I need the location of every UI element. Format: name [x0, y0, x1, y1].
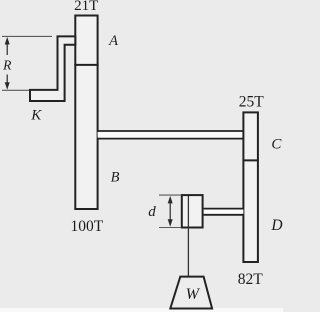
d dimension extension line bottom: [159, 227, 181, 229]
shaft from gear B to gear C: [98, 132, 244, 138]
gear C / gear D column (shaft 2): [243, 112, 258, 262]
rope: [187, 196, 189, 277]
crank K outline: [30, 36, 75, 101]
svg-text:C: C: [271, 137, 282, 153]
d dimension extension line top: [159, 194, 181, 196]
divider between gear A and gear B: [74, 64, 98, 66]
svg-text:100T: 100T: [70, 218, 103, 235]
shaft from gear D to drum: [204, 210, 244, 214]
R dimension extension line top: [2, 35, 52, 37]
svg-text:K: K: [30, 108, 42, 124]
svg-text:W: W: [186, 286, 201, 303]
svg-text:21T: 21T: [74, 0, 98, 14]
svg-text:82T: 82T: [238, 271, 264, 288]
svg-text:R: R: [2, 57, 12, 72]
svg-text:25T: 25T: [239, 93, 265, 110]
svg-text:B: B: [111, 170, 120, 186]
gear A / gear B column (shaft 1): [75, 16, 97, 210]
R dimension extension line bottom: [2, 89, 29, 91]
weight W trapezoid: [170, 277, 212, 309]
svg-text:D: D: [270, 217, 282, 234]
svg-text:A: A: [108, 33, 118, 49]
svg-text:d: d: [148, 204, 156, 220]
drum: [182, 195, 203, 227]
R dimension arrow down: [6, 75, 8, 86]
divider between gear C and gear D: [243, 159, 259, 161]
bottom white strip: [0, 308, 283, 312]
d dimension double arrow: [169, 199, 171, 224]
R dimension arrow up: [6, 42, 8, 55]
